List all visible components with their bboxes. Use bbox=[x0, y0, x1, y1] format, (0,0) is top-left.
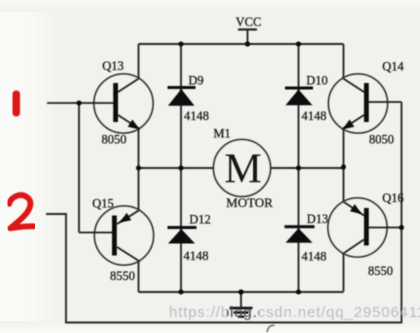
svg-text:4148: 4148 bbox=[302, 250, 327, 264]
svg-text:Q16: Q16 bbox=[382, 191, 404, 205]
svg-text:8550: 8550 bbox=[110, 269, 135, 283]
svg-text:Q13: Q13 bbox=[102, 59, 124, 73]
svg-text:MOTOR: MOTOR bbox=[226, 195, 273, 210]
svg-text:M1: M1 bbox=[213, 127, 230, 141]
svg-text:M: M bbox=[224, 147, 261, 193]
svg-text:VCC: VCC bbox=[236, 15, 262, 29]
svg-text:D13: D13 bbox=[307, 212, 329, 226]
svg-text:https://blog.csdn.net/qq_29506: https://blog.csdn.net/qq_29506411 bbox=[169, 304, 420, 321]
svg-text:4148: 4148 bbox=[184, 249, 209, 263]
svg-text:4148: 4148 bbox=[302, 109, 327, 123]
svg-text:4148: 4148 bbox=[184, 109, 209, 123]
svg-text:D9: D9 bbox=[188, 74, 203, 88]
svg-text:Q15: Q15 bbox=[92, 197, 114, 211]
svg-text:8050: 8050 bbox=[102, 133, 127, 147]
svg-text:D12: D12 bbox=[189, 213, 211, 227]
svg-text:D10: D10 bbox=[306, 74, 328, 88]
svg-text:Q14: Q14 bbox=[382, 60, 404, 74]
svg-text:8550: 8550 bbox=[368, 264, 393, 278]
svg-text:8050: 8050 bbox=[369, 133, 394, 147]
